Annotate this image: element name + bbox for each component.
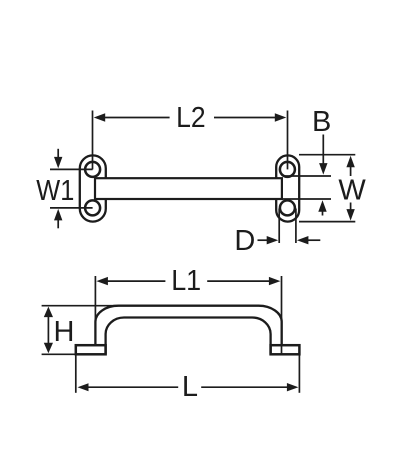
- arrowhead L left: [78, 383, 89, 391]
- left mounting plate (top view, stadium outline): [80, 155, 106, 221]
- dimension line L1 left segment: [107, 280, 165, 282]
- right mounting plate (top view, stadium outline): [276, 155, 299, 221]
- extension line L2 left (vertical through top-left hole centre): [92, 111, 94, 170]
- extension line W1 top (through top-left hole centre): [50, 168, 93, 170]
- extension line W bottom: [299, 221, 355, 223]
- hole top-right: [280, 162, 295, 177]
- extension line B bottom: [283, 198, 331, 200]
- arrowhead B down: [319, 163, 327, 175]
- stem D right arrow: [308, 239, 321, 241]
- extension line L1 left: [94, 276, 96, 322]
- extension line W1 bottom (through bottom-left hole centre): [50, 207, 93, 209]
- dimension line L right segment: [201, 386, 287, 388]
- handle outer contour (side view): [95, 306, 281, 346]
- extension line L1 right: [281, 276, 283, 354]
- arrowhead W down: [346, 209, 354, 221]
- hole top-left: [85, 162, 100, 177]
- arrowhead H down: [44, 343, 53, 354]
- svg-text:L1: L1: [171, 265, 201, 297]
- svg-text:D: D: [234, 225, 255, 257]
- left foot plate (side view): [76, 345, 106, 354]
- arrowhead L1 right: [269, 277, 281, 285]
- extension line L2 right (vertical through top-right hole centre): [287, 111, 289, 170]
- stem B up arrow: [322, 211, 324, 216]
- leader line B: [322, 135, 324, 165]
- arrowhead W up: [346, 156, 354, 168]
- svg-text:W: W: [338, 174, 366, 206]
- stem W up: [350, 167, 352, 177]
- stem D left arrow: [258, 239, 269, 241]
- arrowhead L1 left: [96, 277, 108, 285]
- dimension line L2 right segment: [214, 117, 276, 119]
- arrowhead W1 up: [54, 209, 62, 221]
- stem W1 top arrow: [57, 149, 59, 158]
- arrowhead B up (below bottom line): [318, 200, 326, 212]
- arrowhead W1 down: [54, 157, 62, 169]
- dimension line L left segment: [88, 386, 178, 388]
- right foot plate (side view): [271, 345, 300, 354]
- extension line H bottom: [42, 353, 77, 355]
- svg-text:L: L: [182, 371, 198, 403]
- arrowhead D right-pointing: [267, 236, 279, 244]
- extension line D left (hole tangent): [278, 209, 280, 244]
- arrowhead L2 right: [275, 113, 287, 121]
- extension line L right: [298, 355, 300, 393]
- arrowhead L right: [287, 383, 299, 391]
- arrowhead H up: [44, 307, 53, 318]
- stem W down: [350, 203, 352, 211]
- handle tube (top view bar): [95, 178, 282, 199]
- extension line L left: [75, 355, 77, 393]
- hole bottom-left: [85, 200, 100, 215]
- dimension line L1 right segment: [207, 280, 270, 282]
- svg-text:W1: W1: [36, 175, 74, 207]
- svg-text:H: H: [54, 316, 75, 348]
- arrowhead D left-pointing: [297, 236, 309, 244]
- extension line W top: [299, 154, 355, 156]
- handle inner contour (side view): [106, 318, 271, 355]
- stem W1 bottom arrow: [57, 220, 59, 229]
- extension line D right (hole tangent): [295, 209, 297, 244]
- svg-text:B: B: [312, 106, 331, 138]
- dimension line H: [47, 316, 49, 343]
- svg-text:L2: L2: [176, 102, 206, 134]
- extension line H top: [42, 305, 120, 307]
- extension line B top: [283, 175, 331, 177]
- hole bottom-right: [280, 200, 295, 215]
- dimension line L2 left segment: [104, 117, 170, 119]
- arrowhead L2 left: [94, 113, 106, 121]
